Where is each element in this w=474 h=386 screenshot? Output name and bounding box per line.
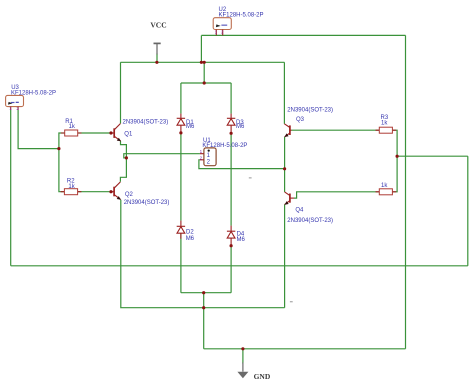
wire bus to diode rail drop <box>203 62 205 83</box>
wire U2 rail left drop <box>200 35 202 62</box>
wire node A to U1 pin1 <box>124 154 200 158</box>
ground <box>237 363 248 379</box>
wire D1-D2 column <box>180 83 182 293</box>
svg-text:VCC: VCC <box>150 20 166 29</box>
svg-text:KF128H-5.08-2P: KF128H-5.08-2P <box>219 12 264 18</box>
svg-text:2N3904(SOT-23): 2N3904(SOT-23) <box>124 200 170 206</box>
wire Q4 emitter drop <box>284 204 286 307</box>
svg-text:2N3904(SOT-23): 2N3904(SOT-23) <box>123 120 169 126</box>
svg-text:KF128H-5.08-2P: KF128H-5.08-2P <box>202 143 247 149</box>
wire Q3 base to R3 <box>292 129 380 131</box>
wire Q3 emitter to Q4 collector <box>284 137 286 192</box>
transistor Q1 <box>111 120 168 142</box>
wire VCC bus <box>121 61 285 63</box>
node D2 D4 link junction <box>202 291 205 294</box>
svg-text:M6: M6 <box>236 124 245 130</box>
svg-text:M6: M6 <box>186 236 195 242</box>
wire right main vertical <box>405 35 407 348</box>
wire ground rail <box>204 348 406 350</box>
svg-text:2N3904(SOT-23): 2N3904(SOT-23) <box>287 108 333 114</box>
node Q2 base pin <box>109 190 112 193</box>
diode D3 <box>227 114 235 134</box>
svg-text:1k: 1k <box>69 124 76 130</box>
node minus mark left <box>249 177 252 179</box>
node diode rail junction <box>203 81 206 84</box>
resistor R2 <box>61 178 82 194</box>
wire diode top rail <box>181 82 231 84</box>
diode D1 <box>177 114 185 133</box>
node R3 R4 junction <box>396 155 399 158</box>
svg-text:D2: D2 <box>186 230 194 236</box>
wire R3 right to R4 right <box>392 130 397 192</box>
resistor R3 <box>376 115 397 133</box>
diode D4 <box>227 226 235 246</box>
node emitter rail junction <box>202 306 205 309</box>
resistor R4 <box>376 183 397 195</box>
wire bus right drop to Q3 collector <box>283 62 285 124</box>
resistor R1 <box>61 119 82 136</box>
wire R1 to Q1 base <box>78 132 111 134</box>
wire D2-D4 bottom link <box>181 292 231 294</box>
node U2 drop junction <box>200 61 203 64</box>
svg-text:M6: M6 <box>237 237 246 243</box>
wire U3 pin2 to R divider <box>18 110 59 149</box>
node bus diode drop junction top <box>203 61 206 64</box>
power flag VCC <box>154 43 161 54</box>
wire U3 pin1 long left drop <box>10 110 12 266</box>
node A left output junction <box>125 156 128 159</box>
wire mid vertical to ground rail <box>203 293 205 349</box>
node D1 anode pin <box>179 131 182 134</box>
node Q1 base pin <box>109 131 112 134</box>
wire U1 pin2 to node B <box>199 160 285 169</box>
connector U2 <box>213 7 263 36</box>
wire R2 to Q2 base <box>78 191 111 193</box>
wire bus left drop to Q1 collector <box>120 62 122 123</box>
svg-text:KF128H-5.08-2P: KF128H-5.08-2P <box>11 90 56 96</box>
svg-text:1k: 1k <box>381 183 388 189</box>
svg-text:Q4: Q4 <box>295 207 304 213</box>
svg-text:1k: 1k <box>68 184 75 190</box>
svg-text:Q2: Q2 <box>125 192 134 198</box>
wire right loop vertical <box>467 156 469 266</box>
node B right output junction <box>283 167 286 170</box>
wire VCC stem lower <box>156 54 158 63</box>
wire D3-D4 column <box>230 83 232 293</box>
svg-text:1k: 1k <box>381 121 388 127</box>
wire R1 R2 left link <box>59 133 65 192</box>
wire U2 rail <box>201 34 405 36</box>
svg-text:2N3904(SOT-23): 2N3904(SOT-23) <box>287 218 333 224</box>
node GND junction <box>241 347 244 350</box>
node R divider junction <box>57 147 60 150</box>
node D3 anode pin <box>230 132 233 135</box>
node D4 anode pin <box>230 244 233 247</box>
wire Q2 emitter down and across <box>121 200 285 308</box>
connector U3 <box>6 85 56 111</box>
node VCC stem junction <box>155 61 158 64</box>
diode D2 <box>177 221 185 239</box>
svg-text:M6: M6 <box>186 124 195 130</box>
wire loop top to R3 R4 junction <box>397 155 468 157</box>
transistor Q3 <box>284 108 333 137</box>
wire GND stem upper <box>242 349 244 364</box>
svg-text:Q3: Q3 <box>296 117 305 123</box>
wire long bottom net <box>11 265 468 267</box>
transistor Q4 <box>285 192 334 224</box>
svg-text:GND: GND <box>254 372 271 381</box>
svg-text:Q1: Q1 <box>124 132 133 138</box>
node minus mark right <box>290 301 293 303</box>
transistor Q2 <box>111 182 169 206</box>
wire Q1 emitter staircase to node <box>120 141 126 182</box>
wire R4 left to Q4 base jog <box>294 192 379 198</box>
connector U1 <box>200 138 248 166</box>
